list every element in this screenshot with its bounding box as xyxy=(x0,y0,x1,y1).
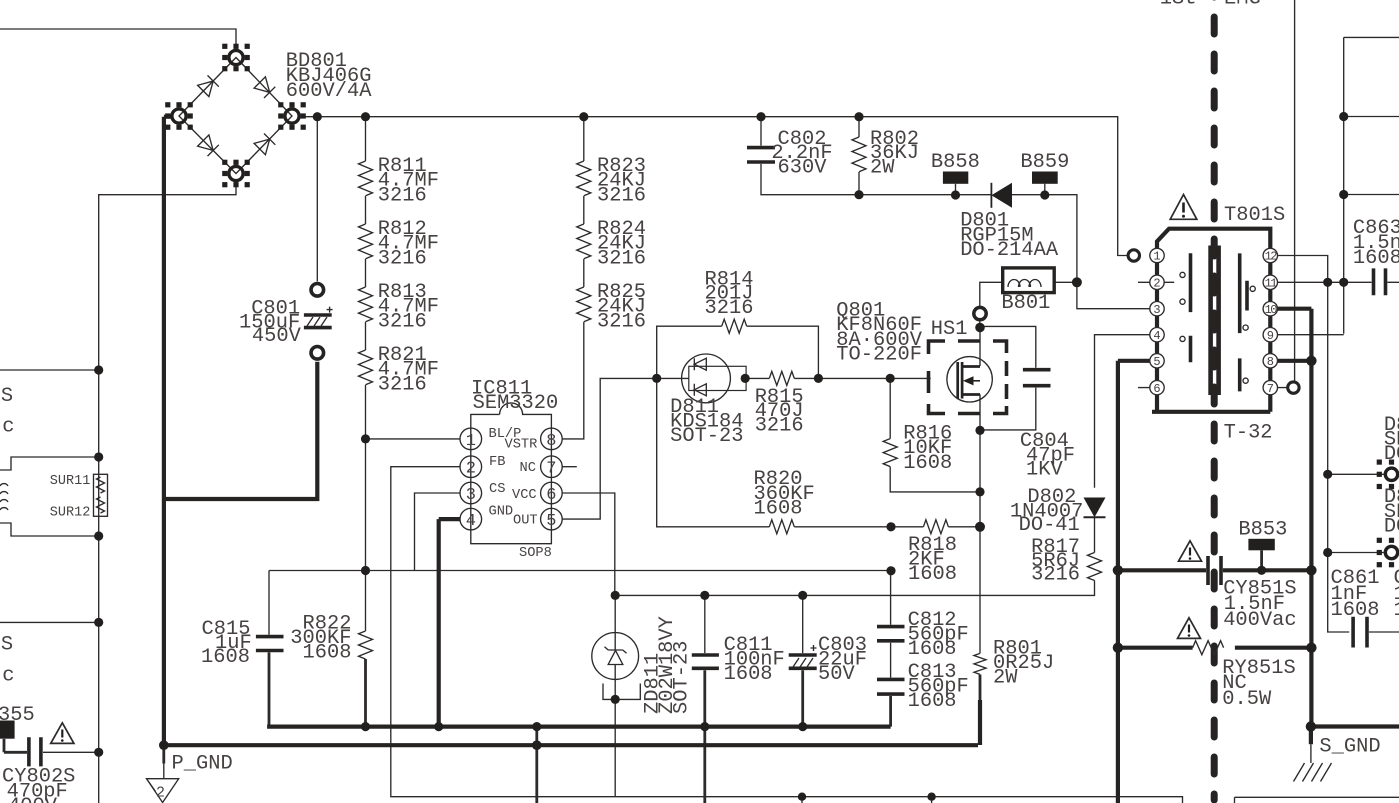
svg-text:DO-214AA: DO-214AA xyxy=(960,239,1059,262)
svg-text:3216: 3216 xyxy=(378,247,427,270)
svg-text:1608: 1608 xyxy=(201,646,250,669)
svg-text:4: 4 xyxy=(1153,329,1160,343)
svg-text:1St: 1St xyxy=(1160,0,1197,11)
svg-text:16: 16 xyxy=(1394,599,1399,622)
svg-text:GND: GND xyxy=(489,505,514,520)
svg-text:5: 5 xyxy=(1153,355,1160,369)
svg-text:2W: 2W xyxy=(870,157,895,180)
svg-text:SUR11: SUR11 xyxy=(50,474,91,489)
svg-text:1608: 1608 xyxy=(754,498,803,521)
svg-text:OUT: OUT xyxy=(513,514,538,529)
svg-text:450V: 450V xyxy=(252,325,302,348)
svg-text:1: 1 xyxy=(466,432,476,451)
svg-text:3216: 3216 xyxy=(597,247,646,270)
svg-text:600V/4A: 600V/4A xyxy=(286,80,372,103)
svg-text:1608: 1608 xyxy=(303,641,352,664)
svg-text:3: 3 xyxy=(1153,303,1160,317)
svg-text:FB: FB xyxy=(489,455,505,470)
svg-text:CS: CS xyxy=(489,482,505,497)
svg-text:3: 3 xyxy=(466,486,476,505)
svg-text:7: 7 xyxy=(546,460,556,479)
svg-text:NC: NC xyxy=(520,461,536,476)
svg-text:355: 355 xyxy=(0,704,35,727)
svg-text:1608: 1608 xyxy=(908,638,957,661)
svg-text:SOT-23: SOT-23 xyxy=(670,425,743,448)
svg-text:2: 2 xyxy=(156,785,165,802)
svg-text:3216: 3216 xyxy=(378,184,427,207)
svg-text:0.5W: 0.5W xyxy=(1222,688,1272,711)
svg-text:DO-41: DO-41 xyxy=(1019,514,1080,537)
svg-text:400Vac: 400Vac xyxy=(1223,609,1296,632)
svg-text:3216: 3216 xyxy=(597,310,646,333)
svg-text:1KV: 1KV xyxy=(1026,458,1063,481)
svg-text:6: 6 xyxy=(546,486,556,505)
svg-text:B801: B801 xyxy=(1001,292,1050,315)
svg-text:3216: 3216 xyxy=(755,415,804,438)
svg-text:1608: 1608 xyxy=(908,690,957,713)
svg-text:DO: DO xyxy=(1384,516,1399,539)
svg-text:1: 1 xyxy=(1153,250,1160,264)
svg-text:3216: 3216 xyxy=(705,297,754,320)
svg-text:1608: 1608 xyxy=(903,452,952,475)
svg-text:S: S xyxy=(1,634,13,657)
svg-text:SOP8: SOP8 xyxy=(519,546,552,561)
svg-text:1608: 1608 xyxy=(1331,599,1380,622)
svg-text:7: 7 xyxy=(1267,382,1274,396)
svg-text:1608: 1608 xyxy=(724,663,773,686)
svg-text:10: 10 xyxy=(1265,303,1278,317)
svg-text:VCC: VCC xyxy=(512,488,537,503)
svg-text:T801S: T801S xyxy=(1224,204,1285,227)
svg-text:630V: 630V xyxy=(778,157,828,180)
svg-text:VSTR: VSTR xyxy=(505,437,538,452)
svg-text:3216: 3216 xyxy=(597,184,646,207)
svg-text:3216: 3216 xyxy=(378,310,427,333)
svg-text:SUR12: SUR12 xyxy=(50,506,91,521)
svg-text:1608: 1608 xyxy=(1353,247,1399,270)
svg-text:2: 2 xyxy=(1153,277,1160,291)
svg-text:c: c xyxy=(2,665,14,688)
svg-text:3216: 3216 xyxy=(378,373,427,396)
svg-text:6: 6 xyxy=(1153,382,1160,396)
svg-text:B853: B853 xyxy=(1238,519,1287,542)
svg-text:5: 5 xyxy=(546,512,556,531)
svg-text:EMG: EMG xyxy=(1224,0,1261,11)
svg-text:12: 12 xyxy=(1265,250,1278,264)
svg-text:8: 8 xyxy=(1267,355,1274,369)
svg-text:1608: 1608 xyxy=(908,563,957,586)
svg-text:4: 4 xyxy=(466,512,476,531)
svg-text:S: S xyxy=(1,385,13,408)
svg-text:SEM3320: SEM3320 xyxy=(473,392,559,415)
svg-text:SOT-23: SOT-23 xyxy=(671,641,694,714)
svg-text:c: c xyxy=(2,415,14,438)
svg-text:9: 9 xyxy=(1267,329,1274,343)
svg-text:DO: DO xyxy=(1384,443,1399,466)
svg-text:HS1: HS1 xyxy=(931,318,968,341)
svg-text:2: 2 xyxy=(466,460,476,479)
svg-text:50V: 50V xyxy=(818,663,855,686)
svg-text:400V: 400V xyxy=(8,795,58,803)
svg-text:P_GND: P_GND xyxy=(172,753,233,776)
svg-text:TO-220F: TO-220F xyxy=(836,344,922,367)
svg-text:T-32: T-32 xyxy=(1224,422,1273,445)
svg-text:B858: B858 xyxy=(931,151,980,174)
svg-text:2W: 2W xyxy=(993,666,1018,689)
svg-text:8: 8 xyxy=(546,432,556,451)
svg-text:B859: B859 xyxy=(1020,151,1069,174)
svg-text:S_GND: S_GND xyxy=(1319,735,1380,758)
svg-text:11: 11 xyxy=(1265,277,1278,291)
svg-text:3216: 3216 xyxy=(1031,564,1080,587)
